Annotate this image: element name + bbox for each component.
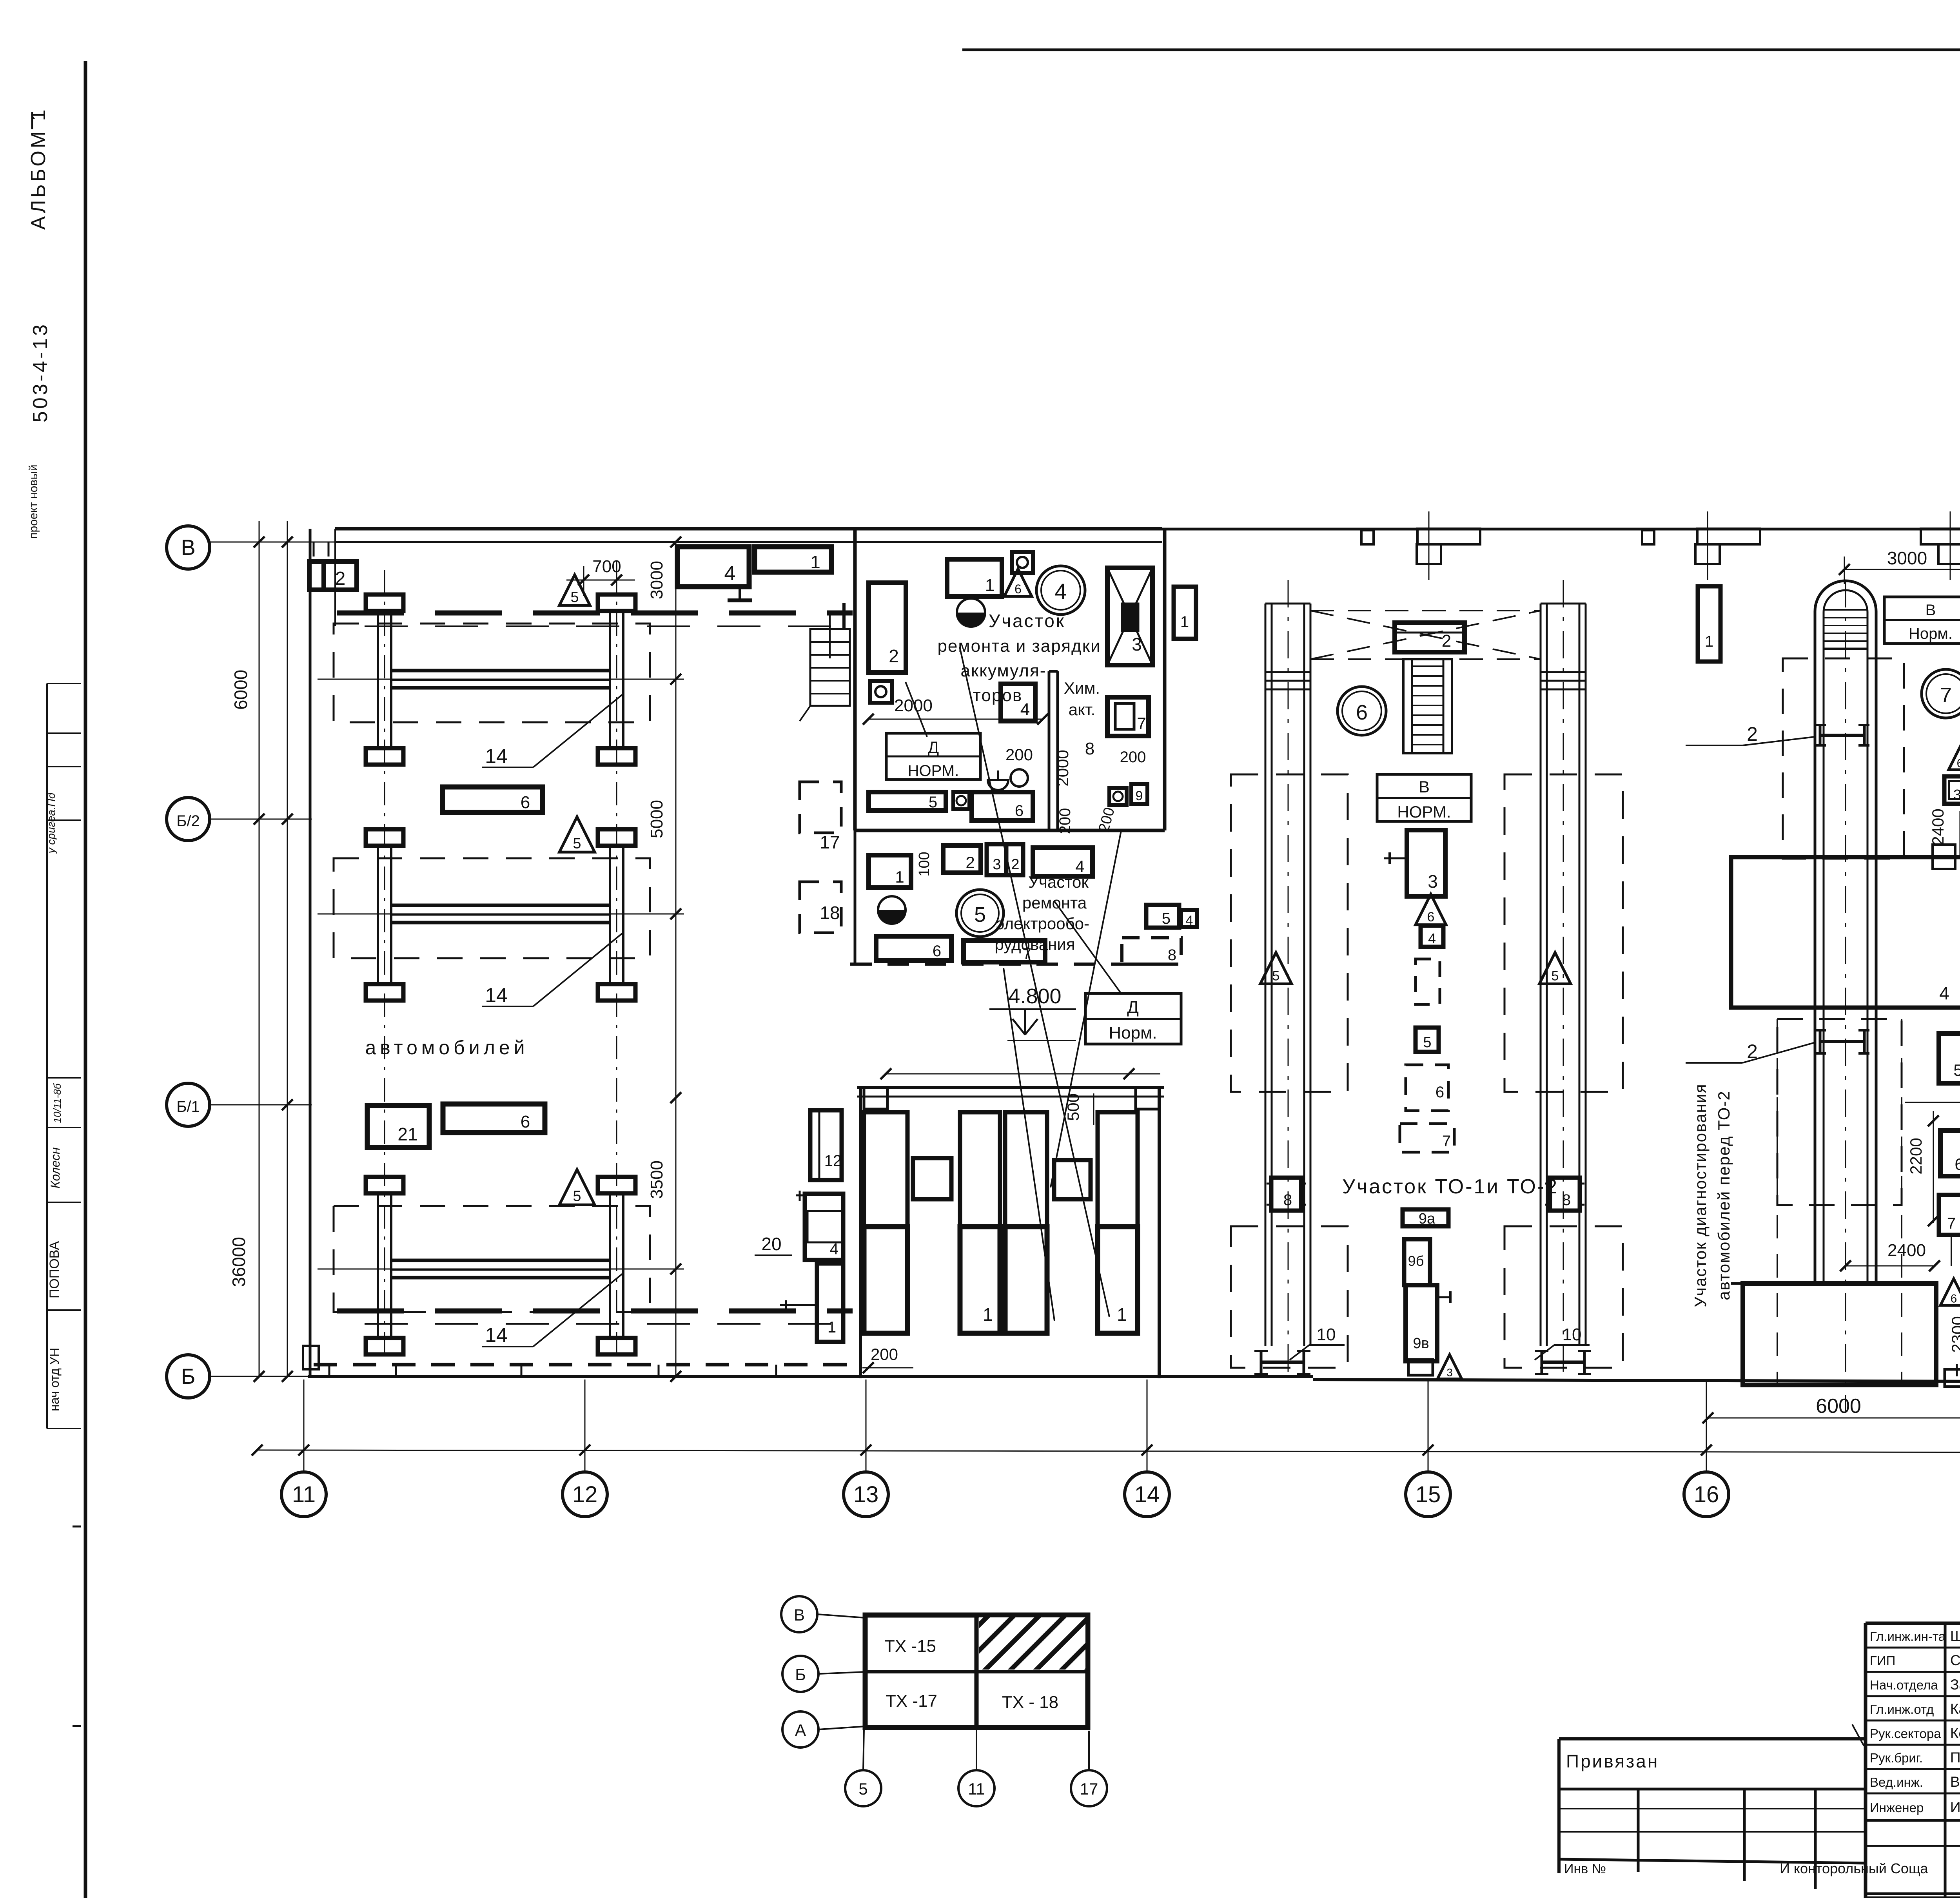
axis circle B/2 [167,798,210,841]
dashed rect lower [1777,1019,1902,1205]
svg-text:Кабанов: Кабанов [1950,1701,1960,1717]
svg-text:И конторольный Соща: И конторольный Соща [1780,1860,1929,1876]
svg-text:ПОПОВА: ПОПОВА [47,1241,62,1298]
key plan divider horizontal [865,1670,1088,1673]
key plan hatched cell [979,1617,1085,1670]
conveyor rail [1265,604,1267,1346]
triangle 5 right track [1539,952,1571,984]
svg-text:Норм.: Норм. [1909,625,1953,642]
svg-text:9б: 9б [1408,1253,1424,1269]
svg-text:12: 12 [824,1152,842,1169]
svg-text:НОРМ.: НОРМ. [908,762,959,780]
roof hatch square 1 [1361,530,1374,544]
dashed box 7 [1400,1124,1454,1152]
equip box 21 [367,1106,429,1148]
dim line top inner [886,1073,1160,1075]
key plan divider vertical [975,1615,979,1728]
lift column long centerlines [384,570,385,1360]
svg-text:14: 14 [485,984,508,1007]
svg-text:Д: Д [1127,998,1139,1017]
wall notch bottom-left [303,1346,319,1369]
triangle 6 bottom [1940,1279,1960,1305]
heavy dash end bar [842,603,846,628]
lift column [598,829,635,846]
svg-text:В: В [1926,602,1936,619]
inner vertical dim line [675,542,677,1376]
equip 2 [943,845,981,873]
svg-text:автомобилей: автомобилей [365,1037,528,1059]
svg-text:Шестернев: Шестернев [1950,1628,1960,1644]
battery room left wall [853,529,857,830]
key plan circle 11 [958,1770,995,1806]
equip 5 [1416,1028,1439,1052]
equip 1 [869,855,911,888]
svg-text:у сригеа.Пд: у сригеа.Пд [45,793,57,854]
svg-text:Игнатова: Игнатова [1950,1799,1960,1815]
svg-text:А: А [795,1721,806,1739]
D norm box in battery room [886,733,980,780]
equip 3 [1407,830,1445,896]
svg-text:2400: 2400 [1887,1241,1926,1260]
triangle marker 5 at top wall [559,575,590,605]
svg-text:В: В [1419,778,1430,796]
svg-text:В: В [794,1606,805,1624]
bottom wall [308,1375,1313,1378]
equip 2 crossbox [1395,623,1465,652]
outside equip 1 [817,1264,843,1342]
svg-text:18: 18 [820,903,840,923]
svg-text:Гл.инж.отд: Гл.инж.отд [1870,1702,1934,1717]
svg-text:3: 3 [1132,634,1142,654]
I-beam trolley 1 [1819,725,1822,745]
svg-text:рудования: рудования [995,935,1075,954]
svg-text:1: 1 [983,1304,993,1325]
equip box 6 row2 [443,1104,545,1133]
vent unit 3 [1107,568,1152,665]
equip 9 [1131,784,1147,804]
svg-text:6: 6 [933,943,941,960]
key plan circle B [782,1656,818,1692]
svg-text:2: 2 [1011,856,1019,873]
bottom stall dashes [314,1363,855,1367]
axis circle B/1 [167,1083,210,1126]
svg-text:5: 5 [1552,969,1559,984]
privyazan table lines [1559,1788,1866,1791]
svg-text:ТХ - 18: ТХ - 18 [1002,1693,1058,1712]
fixture sq [953,792,969,809]
equip 2 tall [869,583,906,673]
triangle 6 [1004,569,1032,596]
crossbeam centerline [318,1269,684,1270]
svg-text:8: 8 [1283,1191,1292,1209]
equip 6 bottom [876,936,951,961]
svg-text:14: 14 [1134,1482,1160,1507]
equip box 2 at top-left [309,562,357,590]
I-beam trolley 2 [1819,1030,1822,1053]
svg-text:Козлов: Козлов [1950,1725,1960,1741]
small triangle at bottom [1437,1355,1462,1379]
svg-text:Вед.инж.: Вед.инж. [1870,1775,1923,1789]
inner wall face left [334,542,336,626]
signature table [1864,1623,1867,1898]
equip 7 right [1939,1195,1960,1235]
key plan circle 17 [1071,1770,1107,1806]
pit dashed outline [334,858,650,958]
svg-text:500: 500 [1064,1093,1082,1121]
svg-text:8: 8 [1085,739,1094,758]
triangle marker 5 above module2 [559,817,595,852]
roof funnel symbol 2 [1697,529,1760,544]
black/white circle symbol [957,598,985,627]
stairs outside left wall [810,629,850,706]
svg-text:3: 3 [993,856,1001,873]
lift crossbeam [391,1259,610,1262]
svg-text:Б: Б [181,1364,196,1389]
svg-text:1: 1 [1180,613,1189,631]
loop ladder rungs [1824,609,1867,611]
svg-text:4: 4 [1939,983,1949,1003]
big bottom rect [1743,1283,1936,1385]
outside equip 12 [810,1110,842,1180]
equip 8 right track [1550,1178,1580,1211]
loop centerline [1845,580,1846,1411]
svg-text:5: 5 [573,835,581,852]
dashed box 5a [1416,959,1440,1004]
svg-text:Участок: Участок [989,611,1065,631]
svg-text:НОРМ.: НОРМ. [1397,803,1451,821]
pit dashed outline [334,1206,650,1312]
left outer wall [309,529,312,1376]
left dim line inner [287,521,288,1376]
equip 9b [1404,1239,1430,1285]
equip 8 dashed [1122,938,1181,964]
top line of right area bottom [1866,1896,1960,1898]
svg-text:1: 1 [810,552,820,572]
equip 3 [1944,776,1960,804]
lift column [598,1177,635,1193]
svg-text:Серебрякова: Серебрякова [1950,1652,1960,1668]
svg-text:2000: 2000 [1053,750,1072,786]
svg-text:10: 10 [1563,1325,1582,1344]
svg-text:2: 2 [889,646,899,666]
axis circle 12 [584,1380,586,1472]
stray slash [1852,1724,1864,1746]
lift column [366,595,403,611]
svg-text:5000: 5000 [647,800,666,838]
leader to D norm [1054,901,1121,993]
heavy dashed line lower parking [337,1309,853,1314]
svg-text:4: 4 [1054,579,1067,604]
axis line B/1 [210,1104,312,1106]
section circle 5 [956,890,1004,937]
equip long box 1 top [755,547,831,572]
svg-text:6: 6 [521,793,530,812]
bottom overall dimension line [257,1450,1960,1452]
black half circle electro room [878,896,906,924]
svg-text:6: 6 [1955,1155,1960,1173]
svg-text:16: 16 [1694,1482,1719,1507]
svg-text:4.800: 4.800 [1008,984,1061,1008]
svg-text:В: В [181,535,195,560]
axis circle B [167,1355,210,1398]
svg-text:7: 7 [1940,683,1952,707]
axis circle 14 [1147,1380,1148,1472]
svg-text:17: 17 [820,832,840,852]
equip 9v [1406,1285,1437,1361]
equip 6 [972,792,1033,821]
axis circle 15 [1428,1380,1429,1472]
track centerline [1288,580,1289,1372]
svg-text:3000: 3000 [1887,548,1927,568]
svg-text:Рук.сектора: Рук.сектора [1870,1726,1941,1741]
cross brace dashed X [1310,611,1541,659]
dashed rect upper [1783,658,1904,859]
axis circle V [167,526,210,569]
stair arrow [800,706,810,721]
triangle 6 right [1949,747,1960,770]
conveyor rail [1579,604,1581,1346]
axis line B [210,1376,310,1377]
triangle 5 left track [1260,952,1292,984]
stall 2 [960,1112,1000,1227]
svg-text:6: 6 [1957,757,1960,770]
svg-text:1: 1 [895,868,904,886]
equip 7 bottom [964,941,1045,962]
svg-text:5: 5 [858,1780,867,1798]
V norm box [1377,774,1471,821]
svg-text:Нач.отдела: Нач.отдела [1870,1678,1938,1692]
small box bottom [1945,1369,1960,1387]
heavy dashed crane line [337,611,853,616]
lift column [598,595,635,611]
sq+circle fixture [870,681,892,703]
svg-text:6: 6 [1356,701,1368,724]
battery room right wall [1163,529,1167,830]
crossbeam centerline [318,914,684,915]
svg-text:17: 17 [1080,1780,1098,1798]
svg-text:ТХ -15: ТХ -15 [884,1637,936,1656]
axis line V [210,542,337,543]
equip 4 small [1421,926,1443,947]
svg-text:2200: 2200 [1907,1138,1925,1174]
section circle 4 [1036,566,1085,615]
partition vertical [1048,671,1051,830]
key plan circle A [782,1711,818,1748]
key plan circle V [781,1596,817,1632]
key plan rect [865,1615,1088,1728]
svg-text:7: 7 [1947,1215,1956,1232]
svg-text:АЛЬБОМ 1: АЛЬБОМ 1 [27,107,50,230]
svg-text:2: 2 [965,853,975,872]
svg-text:торов: торов [973,686,1022,705]
dashed box 6 [1406,1065,1448,1111]
svg-text:7: 7 [1442,1133,1451,1150]
roof hatch square 2 [1642,530,1654,544]
stall 1 [864,1112,907,1227]
svg-text:3000: 3000 [647,561,666,599]
equip 5 right [1939,1033,1960,1083]
svg-text:6000: 6000 [1816,1395,1861,1418]
svg-text:5: 5 [929,794,937,811]
V norm box right [1884,597,1960,644]
I-beam stop right [1541,1351,1543,1374]
battery room bottom wall [855,829,1165,832]
svg-text:4: 4 [724,562,736,585]
roof funnel symbol 3 [1921,529,1960,544]
svg-text:8: 8 [1168,946,1176,964]
svg-text:6: 6 [1951,1292,1957,1305]
svg-text:11: 11 [292,1482,316,1507]
equip 4 [1033,848,1093,876]
svg-text:Д: Д [928,738,939,756]
svg-text:5: 5 [1423,1034,1431,1051]
svg-text:6: 6 [521,1112,530,1131]
equip 1 right of wall [1174,587,1196,639]
svg-text:Участок ТО-1и ТО-2: Участок ТО-1и ТО-2 [1342,1175,1559,1198]
sheet top border [962,49,1960,51]
svg-text:6000: 6000 [230,670,251,710]
svg-text:5: 5 [573,1188,581,1204]
svg-text:13: 13 [853,1482,879,1507]
svg-text:7: 7 [1137,714,1146,732]
svg-text:Инв №: Инв № [1564,1862,1606,1876]
triangle 6 [1416,894,1446,925]
svg-text:4: 4 [1075,857,1084,876]
svg-text:Б: Б [795,1665,806,1684]
svg-text:6: 6 [1436,1084,1444,1101]
left wall stub [854,830,857,964]
svg-text:нач отд УН: нач отд УН [47,1348,62,1411]
svg-text:Плахов: Плахов [1950,1749,1960,1766]
svg-text:Участок диагностирования: Участок диагностирования [1691,1083,1710,1307]
axis circle 11 [303,1380,305,1472]
equip 7 [1107,697,1149,736]
svg-text:3500: 3500 [647,1160,666,1199]
svg-text:100: 100 [916,852,933,876]
small square a [913,1158,951,1199]
lift column [366,829,403,846]
svg-text:2400: 2400 [1929,809,1947,845]
equip box 4 top [677,547,749,587]
pit dashed rectangles [1231,774,1348,1092]
svg-text:Хим.: Хим. [1064,679,1100,697]
equip 1 [947,559,1002,596]
pit dashed outline [334,624,650,722]
dim 6000 between 16-17 [1708,1418,1960,1419]
svg-text:Привязан: Привязан [1566,1751,1659,1771]
svg-text:6: 6 [1015,802,1024,819]
svg-text:8: 8 [1562,1191,1571,1209]
svg-text:Зараковская: Зараковская [1950,1677,1960,1693]
paint room left wall [859,1088,862,1378]
svg-text:5: 5 [1953,1061,1960,1079]
inner dashed verticals [1777,1019,1778,1385]
svg-text:10/11-8б: 10/11-8б [51,1083,63,1123]
rail crossbars [1265,671,1310,673]
svg-text:9в: 9в [1413,1335,1429,1352]
svg-text:9а: 9а [1419,1211,1436,1227]
title block outer top line [1866,1622,1960,1625]
svg-text:4: 4 [1428,930,1436,946]
lift crossbeam [391,904,610,907]
privyazan box top [1559,1737,1866,1740]
D norm box [1085,993,1181,1044]
svg-text:Норм.: Норм. [1109,1023,1157,1042]
svg-text:11: 11 [968,1780,985,1798]
section circle 6 [1338,687,1386,735]
lift crossbeam [391,669,610,673]
top wall left part (double) [335,527,1162,531]
dashed box 18 [800,882,841,933]
stall 4 [1098,1112,1138,1227]
small rect at bottom [1408,1360,1433,1375]
svg-text:5: 5 [1272,969,1280,984]
axis circle 13 [866,1380,867,1472]
svg-text:2000: 2000 [894,696,933,715]
leader to D norm [906,682,927,737]
left dim line outer 36000 [259,521,260,1376]
svg-text:20: 20 [761,1234,781,1254]
paint room top wall double [857,1086,1164,1089]
svg-text:14: 14 [485,745,508,768]
svg-text:5: 5 [570,589,579,605]
long leader diagonals [960,647,1109,1317]
svg-text:ремонта и зарядки: ремонта и зарядки [937,636,1101,656]
equip 9a [1403,1209,1448,1226]
margin border ticks [73,1526,81,1528]
svg-text:Инженер: Инженер [1870,1800,1924,1815]
crossbeam centerline [318,679,684,680]
wall stub right [1931,856,1960,857]
rail top cap [1265,603,1310,605]
svg-text:Б/2: Б/2 [176,812,200,830]
svg-text:автомобилей перед ТО-2: автомобилей перед ТО-2 [1715,1090,1733,1300]
svg-text:9: 9 [1136,789,1143,803]
svg-text:12: 12 [572,1482,598,1507]
svg-text:2300: 2300 [1948,1316,1960,1352]
equip 5 4 right [1146,905,1179,928]
outside equip 4 [805,1194,843,1260]
key plan leader lines [817,1614,865,1618]
paint room right wall [1158,1088,1161,1378]
svg-text:акт.: акт. [1069,700,1095,719]
equip 8 left track [1271,1178,1301,1211]
svg-text:ГИП: ГИП [1870,1653,1895,1668]
svg-text:503-4-13: 503-4-13 [29,322,52,422]
svg-text:4: 4 [1020,700,1030,719]
svg-text:2: 2 [335,568,346,589]
svg-text:3: 3 [1953,787,1960,803]
svg-text:4: 4 [830,1240,838,1258]
diagnostic loop inner [1824,590,1867,1283]
track centerline [1563,580,1564,1372]
conveyor rail [1540,604,1542,1346]
svg-text:10: 10 [1317,1325,1336,1344]
svg-text:200: 200 [1120,749,1146,766]
I-beam stop left [1260,1351,1263,1374]
svg-text:2: 2 [1442,631,1451,651]
svg-text:200: 200 [1056,808,1074,834]
sheet left border [84,61,87,1898]
equip 6 right [1940,1131,1960,1176]
top wall middle-right part [1162,528,1960,531]
svg-text:14: 14 [485,1324,508,1347]
svg-text:2: 2 [1747,723,1758,745]
axis line B/2 [210,819,312,820]
equip 1 right of right track [1698,586,1720,662]
sink symbols [1011,769,1028,787]
equip 5 [869,792,946,810]
